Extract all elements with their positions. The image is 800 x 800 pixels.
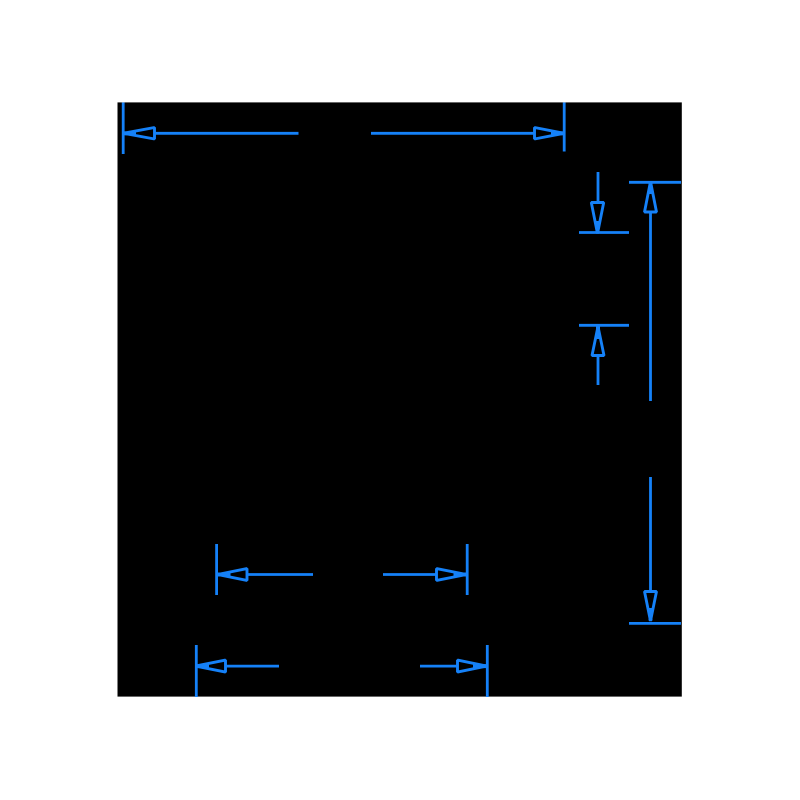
dim B down arrowhead — [645, 592, 657, 622]
width dim right arrowhead — [535, 128, 565, 140]
width dim left extension line — [122, 103, 125, 155]
dim B up arrowhead — [645, 182, 657, 213]
dim A arrow tip bar — [596, 221, 600, 234]
width dim right extension line — [563, 103, 566, 152]
product body silhouette — [118, 102, 682, 696]
dim D left arrow tip bar — [217, 573, 231, 577]
dim D right extension line — [466, 544, 469, 595]
dim E right arrowhead — [458, 660, 487, 672]
dim B bottom extension line — [629, 622, 681, 625]
dim E right segment — [420, 665, 458, 668]
dim C up arrowhead — [592, 327, 604, 356]
dim E right extension line — [486, 645, 489, 697]
dim B top extension line — [629, 181, 681, 184]
dim A down arrowhead — [591, 203, 603, 234]
dim E left arrowhead — [196, 660, 226, 672]
dim D right segment — [383, 573, 437, 576]
width dim left arrowhead — [124, 128, 155, 140]
width dim right arrow tip bar — [551, 131, 565, 135]
dim A vertical line — [597, 172, 600, 203]
dim E left extension line — [195, 645, 198, 697]
dim D right arrowhead — [437, 569, 467, 581]
dim B lower segment — [649, 477, 652, 592]
dim A extension line — [579, 231, 629, 234]
dim B upper segment — [649, 212, 652, 401]
dim C extension line — [579, 324, 629, 327]
dim E left segment — [226, 665, 280, 668]
dim E right arrow tip bar — [473, 664, 487, 668]
dim C arrow tip bar — [596, 327, 600, 340]
dim B bottom arrow tip bar — [649, 608, 653, 621]
dim C vertical line — [597, 356, 600, 386]
width dim left segment — [154, 132, 299, 135]
width dim right segment — [371, 132, 535, 135]
dim E left arrow tip bar — [195, 664, 209, 668]
width dim left arrow tip bar — [122, 131, 136, 135]
dim D right arrow tip bar — [454, 573, 468, 577]
dim B top arrow tip bar — [649, 182, 653, 195]
dim D left extension line — [215, 544, 218, 595]
dim D left arrowhead — [218, 569, 248, 581]
dim D left segment — [247, 573, 313, 576]
